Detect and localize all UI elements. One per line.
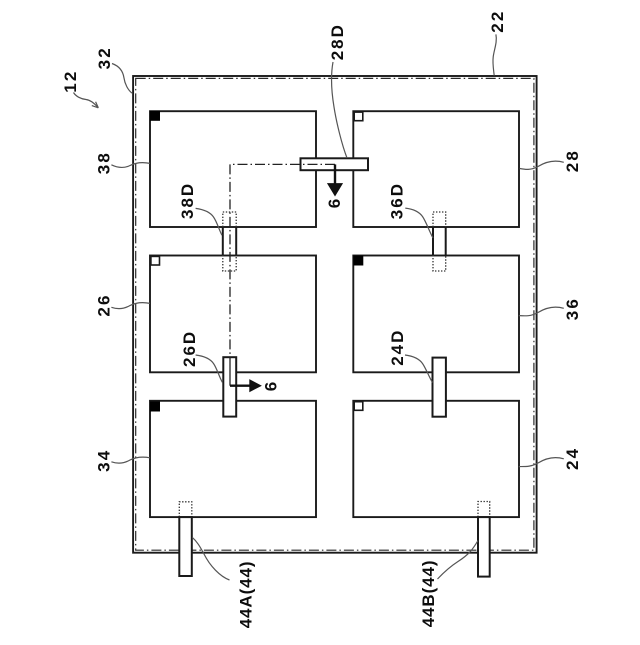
svg-text:36: 36 (563, 297, 582, 320)
panel 28 (top-right cell) (353, 111, 519, 227)
leader line for label 36 (519, 307, 564, 316)
svg-text:12: 12 (61, 69, 80, 92)
tab 38D hidden dotted outline (223, 212, 236, 271)
tab 26D (front, vertical) (223, 357, 236, 416)
leader line for label 28D (332, 62, 347, 158)
svg-text:34: 34 (95, 449, 114, 472)
leader line for label 36D (405, 208, 433, 238)
svg-text:6: 6 (261, 380, 280, 392)
svg-text:38D: 38D (178, 182, 197, 219)
tab 38D solid mid portion (223, 227, 236, 255)
section arrow pointing right (near 26D) (230, 380, 261, 391)
tab 44B solid part crossing frame bottom (478, 517, 490, 577)
inner frame chain line rectangle (136, 78, 534, 550)
section line 6-6 vertical chain inside tab 26D (229, 357, 231, 386)
leader line for label 44A(44) (192, 537, 229, 580)
tab 44B hidden dotted part inside panel 24 (478, 502, 490, 518)
leader line for label 24 (519, 458, 564, 467)
tab 36D hidden dotted outline (433, 212, 446, 271)
outer frame solid rectangle (panel assembly 22/32) (133, 76, 536, 553)
panel 38 (top-left cell) (150, 111, 316, 227)
svg-text:44A(44): 44A(44) (237, 561, 256, 629)
svg-text:22: 22 (488, 9, 507, 32)
leader line for label 32 (112, 64, 132, 94)
section line 6-6 horizontal chain segment (230, 164, 335, 357)
leader line for label 38 (111, 163, 150, 168)
svg-text:38: 38 (95, 151, 114, 174)
svg-text:28: 28 (563, 149, 582, 172)
svg-text:26D: 26D (180, 330, 199, 367)
tab 44A hidden dotted part inside panel 34 (179, 502, 192, 517)
leader line for label 26 (111, 303, 150, 309)
svg-text:28D: 28D (328, 23, 347, 60)
black corner square on panel 36 (353, 256, 363, 266)
section arrow pointing down (near 28D) (328, 164, 342, 195)
svg-text:36D: 36D (387, 182, 406, 219)
black corner square on panel 38 (150, 111, 160, 121)
open corner square on panel 26 (151, 256, 160, 265)
black corner square on panel 34 (150, 402, 160, 412)
panel 34 (bottom-left cell) (150, 401, 316, 517)
tab 28D (front, horizontal) (301, 158, 369, 170)
open corner square on panel 28 (354, 112, 363, 121)
svg-text:26: 26 (95, 293, 114, 316)
panel 26 (middle-left cell) (150, 256, 316, 373)
svg-text:44B(44): 44B(44) (419, 560, 438, 628)
leader line for label 24D (405, 355, 433, 383)
svg-text:24D: 24D (388, 329, 407, 366)
leader line for label 28 (520, 161, 564, 169)
tab 36D solid mid portion (433, 227, 446, 255)
panel 36 (middle-right cell) (353, 256, 519, 373)
tab 24D (front, vertical) (433, 358, 446, 417)
leader line for label 38D (196, 208, 222, 235)
svg-text:32: 32 (95, 46, 114, 69)
panel 24 (bottom-right cell) (353, 401, 519, 517)
svg-text:24: 24 (563, 447, 582, 470)
tab 44A solid part crossing frame bottom (179, 517, 192, 576)
open corner square on panel 24 (354, 402, 363, 411)
svg-text:6: 6 (325, 197, 344, 209)
arrow for label 12 (74, 93, 99, 108)
leader line for label 44B(44) (438, 541, 479, 580)
leader line for label 26D (196, 355, 223, 383)
leader line for label 34 (111, 457, 150, 463)
leader line for label 22 (493, 34, 496, 75)
